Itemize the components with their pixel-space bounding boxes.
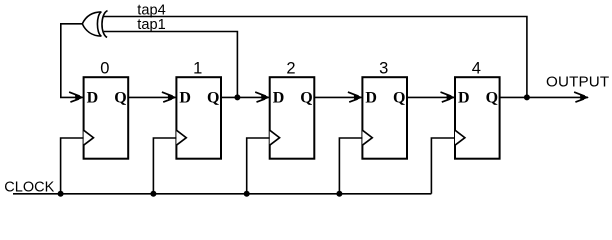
- xor gate U1 (left-facing, feedback XOR): [82, 11, 107, 38]
- svg-text:Q: Q: [300, 89, 312, 106]
- wire: clock stub to flip-flop 3: [339, 138, 362, 194]
- svg-text:Q: Q: [486, 89, 498, 106]
- flip-flop FF1 (D flip-flop, stage 1): [176, 77, 221, 159]
- wire: Q3 to D4: [407, 96, 454, 98]
- wire: Q1 to D2: [221, 96, 269, 98]
- arrow into D of flip-flop 0: [69, 92, 84, 102]
- wire: Q2 to D3: [314, 96, 361, 98]
- wire: tap4 feedback from Q4 junction to XOR top input: [104, 17, 527, 98]
- wire: clock stub to flip-flop 4: [431, 138, 455, 194]
- junction on clock bus at stage 3: [336, 191, 342, 197]
- wire: Q4 to OUTPUT: [500, 96, 588, 98]
- svg-text:3: 3: [379, 60, 388, 78]
- arrow into D of flip-flop 4: [441, 92, 456, 102]
- svg-text:2: 2: [286, 60, 295, 78]
- arrow into D of flip-flop 2: [255, 92, 270, 102]
- junction on clock bus at stage 0: [58, 191, 64, 197]
- flip-flop FF0 (D flip-flop, stage 0): [84, 77, 129, 159]
- svg-text:D: D: [365, 89, 377, 106]
- arrow into D of flip-flop 1: [162, 92, 177, 102]
- junction on clock bus at stage 2: [244, 191, 250, 197]
- wire: clock stub to flip-flop 1: [153, 138, 176, 194]
- svg-text:D: D: [273, 89, 285, 106]
- wire: CLOCK bus along bottom: [13, 193, 431, 195]
- arrow at OUTPUT: [574, 92, 589, 102]
- flip-flop FF2 (D flip-flop, stage 2): [270, 77, 315, 159]
- svg-text:Q: Q: [393, 89, 405, 106]
- svg-text:4: 4: [472, 60, 481, 78]
- svg-text:D: D: [179, 89, 191, 106]
- wire: tap1 feedback from Q1 junction to XOR bottom input: [104, 32, 238, 98]
- flip-flop FF4 (D flip-flop, stage 4): [455, 77, 500, 159]
- svg-text:1: 1: [193, 60, 202, 78]
- wire: clock stub to flip-flop 0: [61, 138, 84, 194]
- junction on tap4 net at Q4: [524, 94, 530, 100]
- svg-text:Q: Q: [207, 89, 219, 106]
- arrow into D of flip-flop 3: [348, 92, 363, 102]
- svg-text:0: 0: [100, 60, 109, 78]
- svg-text:D: D: [458, 89, 470, 106]
- svg-text:Q: Q: [114, 89, 126, 106]
- wire: XOR output down to D input of flip-flop 0: [61, 24, 83, 98]
- junction on tap1 net at Q1: [234, 94, 240, 100]
- svg-text:CLOCK: CLOCK: [4, 179, 54, 195]
- svg-text:tap1: tap1: [137, 17, 165, 33]
- svg-text:OUTPUT: OUTPUT: [546, 74, 609, 91]
- wire: clock stub to flip-flop 2: [247, 138, 270, 194]
- junction on clock bus at stage 1: [150, 191, 156, 197]
- wire: Q0 to D1: [128, 96, 175, 98]
- svg-text:D: D: [87, 89, 99, 106]
- flip-flop FF3 (D flip-flop, stage 3): [362, 77, 407, 159]
